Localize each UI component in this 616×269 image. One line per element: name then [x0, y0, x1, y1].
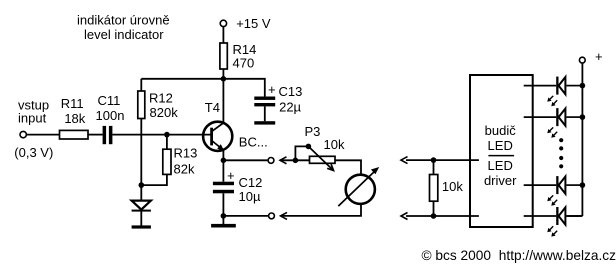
svg-text:+: +: [595, 49, 603, 64]
svg-text:budič: budič: [485, 123, 517, 138]
svg-text:C12: C12: [239, 175, 263, 190]
svg-text:C11: C11: [97, 93, 120, 108]
svg-text:R12: R12: [149, 91, 173, 106]
svg-text:(0,3 V): (0,3 V): [14, 145, 53, 160]
svg-text:82k: 82k: [174, 162, 195, 177]
svg-text:100n: 100n: [96, 108, 125, 123]
svg-text:BC...: BC...: [239, 135, 268, 150]
svg-text:LED: LED: [488, 158, 513, 173]
svg-text:C13: C13: [279, 84, 303, 99]
svg-text:P3: P3: [305, 124, 321, 139]
svg-text:level indicator: level indicator: [84, 27, 164, 42]
svg-text:T4: T4: [205, 100, 220, 115]
svg-text:R13: R13: [174, 146, 198, 161]
svg-text:10k: 10k: [324, 137, 345, 152]
svg-text:10µ: 10µ: [239, 189, 261, 204]
svg-text:driver: driver: [484, 173, 517, 188]
svg-text:820k: 820k: [150, 105, 179, 120]
svg-text:470: 470: [233, 56, 255, 71]
svg-text:+: +: [227, 168, 235, 183]
svg-text:input: input: [18, 111, 47, 126]
svg-text:+: +: [268, 82, 276, 97]
svg-text:R11: R11: [61, 96, 84, 111]
svg-text:http://www.belza.cz: http://www.belza.cz: [499, 248, 616, 263]
svg-text:+15 V: +15 V: [236, 16, 271, 31]
svg-text:LED: LED: [488, 138, 513, 153]
svg-text:22µ: 22µ: [279, 100, 301, 115]
svg-text:18k: 18k: [64, 111, 85, 126]
svg-text:indikátor úrovně: indikátor úrovně: [77, 12, 170, 27]
svg-text:10k: 10k: [442, 179, 463, 194]
svg-text:© bcs 2000: © bcs 2000: [422, 248, 492, 263]
